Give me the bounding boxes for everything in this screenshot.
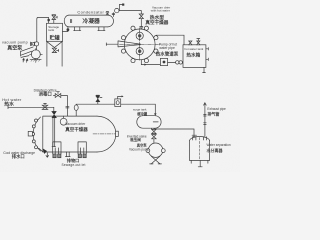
svg-text:消毒口: 消毒口 [39, 90, 52, 97]
svg-text:排气管: 排气管 [207, 111, 219, 117]
svg-text:Hot water: Hot water [2, 97, 22, 102]
svg-text:水分离器: 水分离器 [206, 147, 224, 153]
svg-text:泄压阀: 泄压阀 [130, 137, 141, 142]
svg-text:真空泵: 真空泵 [7, 45, 23, 52]
svg-text:真空干燥器: 真空干燥器 [145, 19, 168, 26]
svg-text:真空干燥器: 真空干燥器 [65, 126, 88, 133]
svg-text:Vacuum pump: Vacuum pump [129, 148, 150, 152]
svg-text:hot water tank: hot water tank [184, 47, 203, 51]
svg-text:热水管道泵: 热水管道泵 [156, 51, 179, 58]
svg-text:冷凝器: 冷凝器 [82, 17, 100, 25]
svg-text:vacuum pump: vacuum pump [2, 41, 28, 45]
svg-text:Sewage-out let: Sewage-out let [62, 163, 86, 167]
svg-text:with hot water: with hot water [151, 9, 170, 13]
svg-text:贮罐: 贮罐 [49, 35, 60, 42]
svg-text:tank: tank [48, 28, 54, 32]
svg-text:water pipe: water pipe [159, 46, 175, 50]
svg-text:Condensator: Condensator [77, 10, 104, 15]
svg-text:Vacuum drier: Vacuum drier [65, 122, 86, 126]
svg-text:热水箱: 热水箱 [186, 52, 200, 59]
svg-text:Exhaust pipe: Exhaust pipe [207, 107, 226, 111]
svg-text:Water separation: Water separation [207, 143, 231, 147]
svg-text:排水口: 排水口 [12, 153, 25, 160]
svg-text:热水: 热水 [4, 101, 14, 108]
svg-text:缓冲罐: 缓冲罐 [137, 111, 148, 116]
